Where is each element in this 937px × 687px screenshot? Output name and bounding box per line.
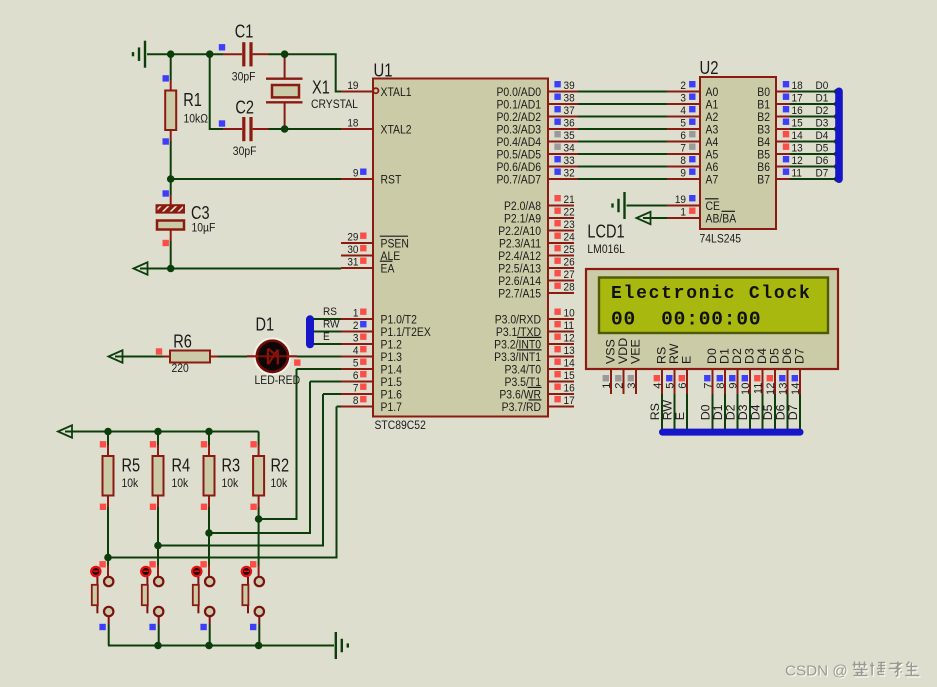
svg-text:10k: 10k (172, 477, 189, 490)
svg-text:D5: D5 (816, 142, 829, 155)
svg-text:2: 2 (680, 79, 686, 92)
svg-text:E: E (673, 412, 687, 420)
svg-text:P3.7/RD: P3.7/RD (502, 401, 541, 414)
svg-text:D7: D7 (786, 404, 800, 420)
svg-text:P0.0/AD0: P0.0/AD0 (496, 86, 541, 99)
svg-text:6: 6 (680, 129, 686, 142)
svg-text:P3.0/RXD: P3.0/RXD (495, 314, 541, 327)
svg-text:8: 8 (715, 383, 727, 389)
svg-text:8: 8 (680, 154, 686, 167)
svg-text:5: 5 (664, 383, 676, 389)
svg-text:5: 5 (680, 117, 686, 130)
svg-text:PSEN: PSEN (381, 238, 409, 251)
svg-text:Electronic Clock: Electronic Clock (611, 284, 812, 304)
svg-text:2: 2 (353, 319, 359, 332)
svg-text:P0.5/AD5: P0.5/AD5 (496, 149, 541, 162)
svg-text:P1.1/T2EX: P1.1/T2EX (381, 326, 432, 339)
svg-text:P1.5: P1.5 (381, 376, 402, 389)
svg-text:U2: U2 (700, 57, 719, 78)
svg-text:B4: B4 (757, 136, 770, 149)
svg-text:RS: RS (323, 305, 337, 318)
svg-text:A5: A5 (706, 149, 719, 162)
svg-text:34: 34 (564, 142, 575, 155)
svg-text:10µF: 10µF (192, 222, 216, 235)
svg-text:29: 29 (347, 231, 358, 244)
svg-text:P0.4/AD4: P0.4/AD4 (496, 136, 541, 149)
svg-text:E: E (323, 330, 330, 343)
svg-text:24: 24 (564, 231, 575, 244)
svg-text:RW: RW (323, 318, 340, 331)
svg-text:10: 10 (564, 307, 575, 320)
svg-text:U1: U1 (374, 60, 393, 81)
svg-text:D6: D6 (816, 154, 829, 167)
svg-text:B2: B2 (757, 111, 770, 124)
svg-text:CSDN @: CSDN @ (785, 663, 848, 680)
svg-text:B1: B1 (757, 99, 770, 112)
svg-text:A6: A6 (706, 161, 719, 174)
svg-text:13: 13 (792, 142, 803, 155)
svg-text:P0.2/AD2: P0.2/AD2 (496, 111, 541, 124)
svg-text:3: 3 (680, 92, 686, 105)
svg-text:D3: D3 (816, 117, 829, 130)
svg-text:R3: R3 (222, 456, 241, 476)
svg-text:P1.6: P1.6 (381, 389, 402, 402)
svg-text:B7: B7 (757, 174, 770, 187)
svg-text:17: 17 (564, 394, 575, 407)
svg-text:P0.1/AD1: P0.1/AD1 (496, 99, 541, 112)
svg-text:220: 220 (172, 362, 189, 375)
svg-text:B3: B3 (757, 124, 770, 137)
svg-text:B6: B6 (757, 161, 770, 174)
svg-text:14: 14 (564, 357, 575, 370)
svg-text:R6: R6 (173, 332, 192, 352)
svg-text:10k: 10k (271, 477, 288, 490)
svg-text:14: 14 (790, 383, 802, 395)
svg-text:P2.5/A13: P2.5/A13 (498, 263, 541, 276)
svg-text:30pF: 30pF (233, 145, 257, 158)
svg-text:13: 13 (777, 383, 789, 395)
svg-text:17: 17 (792, 92, 803, 105)
svg-text:33: 33 (564, 154, 575, 167)
svg-text:39: 39 (564, 79, 575, 92)
svg-text:36: 36 (564, 117, 575, 130)
svg-text:5: 5 (353, 357, 359, 370)
svg-text:4: 4 (353, 344, 359, 357)
svg-text:38: 38 (564, 92, 575, 105)
svg-text:P2.3/A11: P2.3/A11 (499, 238, 541, 251)
svg-text:9: 9 (353, 167, 359, 180)
svg-text:R2: R2 (271, 456, 290, 476)
svg-text:10k: 10k (222, 477, 239, 490)
svg-text:D0: D0 (816, 79, 829, 92)
svg-text:00 00:00:00: 00 00:00:00 (611, 309, 761, 331)
svg-text:D7: D7 (816, 167, 829, 180)
svg-text:30: 30 (347, 243, 358, 256)
svg-text:18: 18 (347, 117, 358, 130)
svg-text:P1.3: P1.3 (381, 351, 402, 364)
svg-text:A0: A0 (706, 86, 719, 99)
svg-text:STC89C52: STC89C52 (375, 419, 426, 432)
svg-text:LM016L: LM016L (587, 243, 625, 256)
svg-text:D1: D1 (816, 92, 829, 105)
svg-text:10: 10 (740, 383, 752, 395)
svg-text:35: 35 (564, 129, 575, 142)
svg-text:15: 15 (564, 369, 575, 382)
svg-text:37: 37 (564, 104, 575, 117)
svg-text:1: 1 (353, 307, 359, 320)
svg-text:P1.4: P1.4 (381, 364, 403, 377)
svg-text:6: 6 (353, 369, 359, 382)
svg-text:9: 9 (680, 167, 686, 180)
svg-text:25: 25 (564, 243, 575, 256)
svg-text:D1: D1 (256, 315, 275, 335)
svg-text:B5: B5 (757, 149, 770, 162)
svg-text:6: 6 (677, 383, 689, 389)
svg-text:X1: X1 (312, 78, 330, 98)
svg-text:13: 13 (564, 344, 575, 357)
svg-text:18: 18 (792, 79, 803, 92)
svg-text:3: 3 (626, 383, 638, 389)
svg-text:14: 14 (792, 129, 803, 142)
svg-text:11: 11 (564, 319, 574, 332)
svg-text:7: 7 (680, 142, 686, 155)
svg-text:32: 32 (564, 167, 575, 180)
svg-text:7: 7 (353, 382, 359, 395)
svg-text:26: 26 (564, 256, 575, 269)
svg-text:16: 16 (792, 104, 803, 117)
svg-text:31: 31 (347, 256, 358, 269)
svg-text:P3.3/INT1: P3.3/INT1 (494, 351, 541, 364)
svg-text:10k: 10k (122, 477, 139, 490)
svg-text:28: 28 (564, 281, 575, 294)
svg-text:A7: A7 (706, 174, 719, 187)
svg-text:27: 27 (564, 268, 575, 281)
svg-text:R5: R5 (122, 456, 141, 476)
svg-text:7: 7 (702, 383, 714, 389)
svg-text:16: 16 (564, 382, 575, 395)
svg-text:RST: RST (381, 174, 402, 187)
svg-text:P2.1/A9: P2.1/A9 (504, 213, 541, 226)
svg-text:C1: C1 (235, 22, 254, 42)
svg-text:P2.6/A14: P2.6/A14 (498, 275, 541, 288)
svg-text:19: 19 (675, 193, 686, 206)
svg-text:A4: A4 (706, 136, 719, 149)
svg-text:LCD1: LCD1 (587, 222, 624, 242)
svg-text:XTAL1: XTAL1 (381, 86, 412, 99)
svg-text:22: 22 (564, 206, 575, 219)
svg-text:3: 3 (353, 332, 359, 345)
svg-text:30pF: 30pF (232, 71, 256, 84)
svg-text:VEE: VEE (629, 339, 643, 364)
svg-text:R4: R4 (172, 456, 191, 476)
svg-text:AB/BA: AB/BA (706, 213, 737, 226)
svg-text:CRYSTAL: CRYSTAL (311, 98, 358, 111)
svg-text:74LS245: 74LS245 (700, 233, 742, 246)
svg-text:XTAL2: XTAL2 (381, 124, 412, 137)
svg-text:P0.6/AD6: P0.6/AD6 (496, 161, 541, 174)
svg-text:12: 12 (564, 332, 575, 345)
svg-text:4: 4 (652, 383, 664, 389)
svg-text:12: 12 (765, 383, 777, 395)
svg-text:9: 9 (727, 383, 739, 389)
svg-text:23: 23 (564, 218, 575, 231)
svg-text:C2: C2 (235, 98, 254, 118)
svg-text:D7: D7 (793, 348, 807, 364)
svg-text:LED-RED: LED-RED (255, 374, 301, 387)
svg-text:P2.4/A12: P2.4/A12 (498, 250, 541, 263)
svg-text:EA: EA (381, 263, 395, 276)
svg-text:P1.7: P1.7 (381, 401, 402, 414)
svg-text:P1.0/T2: P1.0/T2 (381, 314, 417, 327)
svg-text:P2.7/A15: P2.7/A15 (498, 288, 541, 301)
svg-text:15: 15 (792, 117, 803, 130)
svg-text:4: 4 (680, 104, 686, 117)
svg-text:P0.7/AD7: P0.7/AD7 (496, 174, 541, 187)
svg-text:11: 11 (792, 167, 802, 180)
svg-text:P2.0/A8: P2.0/A8 (504, 200, 541, 213)
svg-text:D4: D4 (816, 129, 829, 142)
svg-text:1: 1 (680, 206, 686, 219)
svg-text:A1: A1 (706, 99, 719, 112)
svg-text:1: 1 (601, 383, 613, 389)
svg-text:C3: C3 (191, 204, 210, 224)
svg-text:10kΩ: 10kΩ (184, 113, 208, 126)
svg-text:21: 21 (564, 193, 575, 206)
svg-text:11: 11 (752, 383, 764, 395)
svg-text:P2.2/A10: P2.2/A10 (498, 225, 541, 238)
svg-text:E: E (680, 356, 694, 364)
svg-text:2: 2 (613, 383, 625, 389)
svg-text:A3: A3 (706, 124, 719, 137)
svg-text:P0.3/AD3: P0.3/AD3 (496, 124, 541, 137)
svg-text:CE: CE (706, 200, 721, 213)
svg-text:P1.2: P1.2 (381, 339, 402, 352)
svg-text:8: 8 (353, 394, 359, 407)
svg-text:D2: D2 (816, 104, 829, 117)
svg-text:12: 12 (792, 154, 803, 167)
svg-text:A2: A2 (706, 111, 719, 124)
svg-text:R1: R1 (183, 91, 202, 111)
svg-text:P3.4/T0: P3.4/T0 (505, 364, 541, 377)
svg-text:B0: B0 (757, 86, 770, 99)
svg-text:19: 19 (347, 79, 358, 92)
